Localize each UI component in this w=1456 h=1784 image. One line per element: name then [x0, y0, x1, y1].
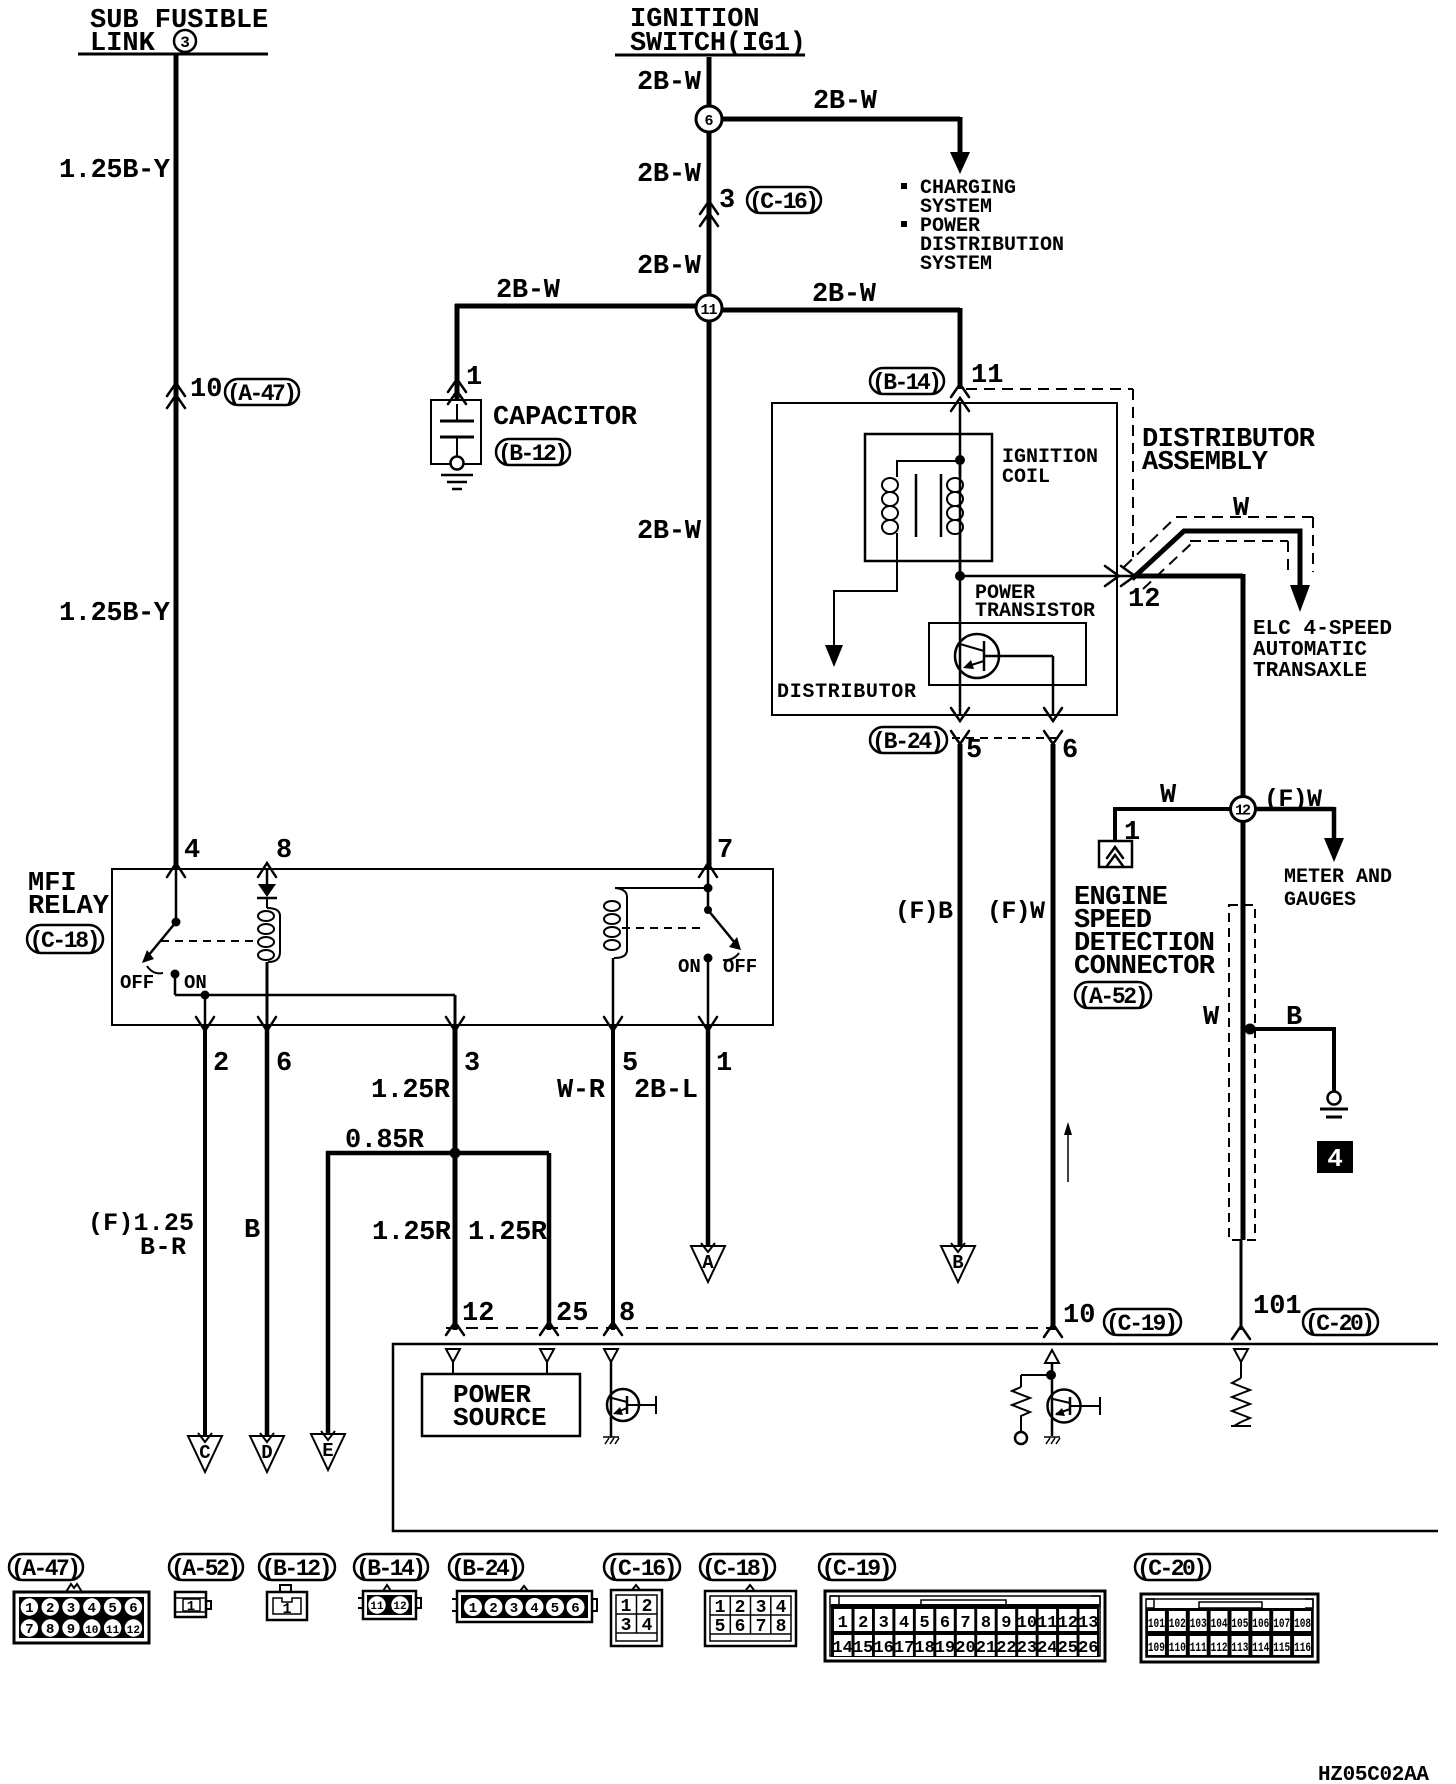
ignition coil box [865, 434, 992, 561]
dashed rectangle around W wire [1229, 905, 1255, 1240]
wire 2B-W from node 11 to distributor B-14 pin 11 [722, 308, 960, 389]
power transistor Q [955, 576, 1053, 715]
svg-text:7: 7 [960, 1614, 970, 1633]
svg-text:(A-52): (A-52) [1078, 984, 1149, 1010]
connector C-16 pinout [611, 1585, 662, 1646]
svg-text:1: 1 [621, 1597, 632, 1617]
thick W wire diagonal and to ELC transaxle [1132, 531, 1300, 585]
transistor at ECU pin 8 [603, 1362, 656, 1444]
svg-text:2: 2 [489, 1601, 497, 1617]
connector ref A-52 stadium row [169, 1554, 243, 1582]
svg-text:12: 12 [462, 1299, 494, 1329]
svg-text:COIL: COIL [1002, 466, 1050, 489]
wire 2B-W to capacitor [455, 304, 696, 400]
connector ref B-14 stadium [870, 368, 944, 396]
chevron at pin 101 [1232, 1326, 1250, 1339]
svg-text:3: 3 [510, 1601, 518, 1617]
chevrons at relay bottom pins [196, 1017, 717, 1031]
svg-text:RELAY: RELAY [28, 892, 110, 922]
svg-text:4: 4 [899, 1614, 909, 1633]
svg-text:2B-W: 2B-W [812, 280, 877, 310]
svg-text:12: 12 [1235, 803, 1251, 820]
ECU dashed connector line [446, 1327, 1054, 1329]
svg-text:15: 15 [853, 1639, 873, 1658]
svg-text:CONNECTOR: CONNECTOR [1074, 952, 1216, 982]
svg-text:2B-W: 2B-W [496, 276, 561, 306]
svg-text:103: 103 [1190, 1616, 1207, 1631]
svg-text:(C-20): (C-20) [1137, 1556, 1207, 1582]
svg-text:6: 6 [704, 113, 713, 130]
svg-text:(C-19): (C-19) [1106, 1311, 1178, 1337]
label DISTRIBUTOR ASSEMBLY [1142, 425, 1316, 478]
svg-text:(A-47): (A-47) [227, 381, 297, 407]
svg-text:B: B [952, 1252, 963, 1274]
svg-text:(C-18): (C-18) [702, 1556, 772, 1582]
svg-text:(C-19): (C-19) [822, 1556, 893, 1582]
svg-text:6: 6 [571, 1601, 579, 1617]
svg-text:10: 10 [1017, 1614, 1037, 1633]
(F)W wire to C-19 pin 10 [1051, 744, 1056, 1330]
svg-text:W: W [1233, 494, 1250, 524]
connector B-14 pinout [358, 1585, 421, 1619]
svg-text:11: 11 [370, 1601, 384, 1613]
svg-text:ELC 4-SPEED: ELC 4-SPEED [1253, 618, 1392, 641]
svg-text:18: 18 [914, 1639, 934, 1658]
svg-text:12: 12 [1058, 1614, 1078, 1633]
junction dot coil top [955, 455, 965, 465]
wire pin6 to arrow D [265, 1025, 270, 1437]
pin triangle 8 [604, 1349, 618, 1362]
svg-text:4: 4 [530, 1601, 538, 1617]
svg-text:1: 1 [469, 1601, 477, 1617]
svg-text:DISTRIBUTOR: DISTRIBUTOR [777, 681, 916, 704]
svg-text:107: 107 [1273, 1616, 1290, 1631]
small up arrow beside (F)W wire [1064, 1122, 1072, 1182]
svg-text:104: 104 [1211, 1616, 1228, 1631]
svg-text:7: 7 [25, 1622, 33, 1638]
connector ref B-12 stadium [496, 439, 570, 467]
svg-text:109: 109 [1148, 1640, 1165, 1655]
dashed link left switch to coil [161, 940, 253, 942]
junction dot pin2 [201, 991, 210, 1000]
svg-text:8: 8 [619, 1299, 635, 1329]
svg-text:4: 4 [88, 1601, 96, 1617]
inline connector chevrons C-16 pin 3 [700, 201, 718, 226]
ground symbol right [1320, 1092, 1348, 1118]
ECU box outline [393, 1344, 1438, 1531]
connector ref C-18 stadium [27, 925, 103, 954]
connector ref B-14 stadium row [354, 1554, 428, 1582]
svg-text:21: 21 [976, 1639, 996, 1658]
label IGNITION SWITCH(IG1) [630, 5, 806, 59]
svg-text:6: 6 [940, 1614, 950, 1633]
svg-text:6: 6 [276, 1049, 292, 1079]
connector ref C-20 stadium row [1135, 1554, 1210, 1582]
main 2B-W wire from ignition switch down to MFI relay pin 7 [707, 57, 712, 869]
svg-text:12: 12 [1128, 585, 1160, 615]
svg-text:1.25B-Y: 1.25B-Y [59, 156, 171, 186]
svg-text:5: 5 [919, 1614, 929, 1633]
W wire from pin 12 junction to node 12 [1134, 574, 1243, 797]
label MFI RELAY [28, 869, 110, 922]
svg-text:14: 14 [832, 1639, 852, 1658]
svg-text:11: 11 [701, 302, 718, 319]
connector ref C-18 stadium row [700, 1554, 775, 1582]
junction dot 1.25R split [450, 1148, 461, 1159]
connector C-18 pinout [705, 1585, 796, 1646]
svg-text:19: 19 [935, 1639, 955, 1658]
svg-text:6: 6 [129, 1601, 137, 1617]
svg-text:CAPACITOR: CAPACITOR [493, 403, 638, 433]
svg-text:6: 6 [1062, 736, 1078, 766]
wire into ignition coil [959, 403, 962, 576]
MFI relay box [112, 869, 773, 1025]
svg-text:9: 9 [67, 1622, 75, 1638]
svg-text:(C-18): (C-18) [30, 928, 101, 954]
svg-text:1: 1 [282, 1601, 291, 1618]
power transistor box [929, 623, 1086, 685]
bus bar under SUB FUSIBLE LINK [78, 53, 268, 56]
label ENGINE SPEED DETECTION CONNECTOR [1074, 883, 1216, 982]
arrow E triangle [311, 1431, 345, 1470]
branch wire 2B-W to charging system [722, 117, 960, 152]
svg-text:(B-14): (B-14) [872, 370, 942, 396]
svg-text:11: 11 [971, 361, 1003, 391]
distributor assembly solid box [772, 403, 1117, 715]
wire pin2 to arrow C [203, 1025, 207, 1437]
svg-text:W: W [1203, 1003, 1220, 1033]
connector ref A-52 stadium [1075, 982, 1151, 1010]
svg-text:OFF: OFF [723, 956, 757, 978]
svg-text:(B-12): (B-12) [262, 1556, 333, 1582]
svg-text:(C-16): (C-16) [607, 1556, 678, 1582]
arrowhead to charging system [950, 152, 970, 174]
connector ref C-19 stadium [1104, 1309, 1181, 1337]
distributor assembly dashed outline top [966, 389, 1133, 557]
svg-text:B-R: B-R [140, 1233, 186, 1262]
annotation METER AND GAUGES [1284, 866, 1392, 912]
junction dot B branch [1245, 1024, 1256, 1035]
W wire left branch to engine speed detection connector [1115, 807, 1231, 841]
svg-text:2B-W: 2B-W [813, 87, 878, 117]
inline connector chevrons on wire (A-47 pin 10) [167, 383, 185, 408]
svg-text:101: 101 [1148, 1616, 1165, 1631]
svg-text:11: 11 [1037, 1614, 1057, 1633]
svg-text:ON: ON [184, 972, 207, 994]
connector ref C-19 stadium row [819, 1554, 895, 1582]
svg-text:12: 12 [127, 1625, 140, 1637]
wire 1.25B-Y from sub fusible link to MFI relay pin 4 [174, 55, 179, 869]
svg-text:17: 17 [894, 1639, 914, 1658]
svg-text:116: 116 [1294, 1640, 1311, 1655]
svg-text:B: B [244, 1216, 260, 1246]
svg-text:10: 10 [190, 375, 222, 405]
svg-text:24: 24 [1037, 1639, 1057, 1658]
svg-text:(F)W: (F)W [987, 897, 1045, 926]
svg-text:112: 112 [1211, 1640, 1228, 1655]
svg-text:26: 26 [1078, 1639, 1098, 1658]
svg-text:4: 4 [184, 836, 200, 866]
ignition coil transformer [882, 460, 963, 576]
relay diode [257, 869, 277, 908]
svg-text:2: 2 [642, 1597, 653, 1617]
svg-text:1: 1 [25, 1601, 33, 1617]
wire label (F)1.25 B-R [88, 1209, 194, 1262]
svg-text:2B-W: 2B-W [637, 517, 702, 547]
chevrons at ECU pins 12 25 8 10 [446, 1322, 1062, 1337]
svg-text:5: 5 [622, 1049, 638, 1079]
wire pin2 inside [204, 995, 207, 1025]
svg-text:(C-20): (C-20) [1305, 1311, 1375, 1337]
svg-text:W-R: W-R [557, 1076, 606, 1106]
svg-text:8: 8 [276, 836, 292, 866]
svg-text:(B-12): (B-12) [498, 441, 568, 467]
svg-text:AUTOMATIC: AUTOMATIC [1253, 639, 1367, 662]
pin triangle 10 (up) [1045, 1350, 1059, 1363]
svg-text:8: 8 [46, 1622, 54, 1638]
svg-text:4: 4 [1327, 1144, 1343, 1174]
svg-text:TRANSAXLE: TRANSAXLE [1253, 660, 1367, 683]
wire pin1 to arrow A [706, 1025, 711, 1246]
svg-text:11: 11 [106, 1625, 120, 1637]
label POWER TRANSISTOR [975, 582, 1095, 623]
B-24 dashed line [952, 737, 1061, 739]
svg-text:5: 5 [966, 736, 982, 766]
svg-text:108: 108 [1294, 1616, 1311, 1631]
svg-text:22: 22 [996, 1639, 1016, 1658]
svg-text:1.25R: 1.25R [372, 1218, 452, 1248]
svg-text:W: W [1160, 781, 1177, 811]
svg-text:(B-14): (B-14) [356, 1556, 426, 1582]
svg-text:GAUGES: GAUGES [1284, 889, 1356, 912]
connector C-20 pinout [1141, 1594, 1318, 1662]
(F)W wire right branch to meter and gauges [1255, 807, 1334, 838]
svg-text:2B-W: 2B-W [637, 68, 702, 98]
svg-text:HZ05C02AA: HZ05C02AA [1318, 1764, 1429, 1784]
svg-text:3: 3 [621, 1616, 632, 1636]
svg-text:(B-24): (B-24) [872, 729, 944, 755]
inline connector chevrons capacitor pin 1 [448, 379, 466, 404]
svg-text:20: 20 [955, 1639, 975, 1658]
relay switch left [142, 869, 181, 979]
connector chevrons at box exit pin 12 [1105, 566, 1135, 586]
svg-text:1: 1 [716, 1049, 732, 1079]
svg-text:111: 111 [1190, 1640, 1207, 1655]
stub wires pins 12 25 [453, 1362, 547, 1374]
svg-text:D: D [261, 1442, 272, 1464]
relay coil right [604, 888, 627, 1025]
dashed outline along W wire (distributor assembly continuation) [1124, 517, 1313, 572]
connector ref A-47 stadium [225, 379, 299, 407]
svg-text:1.25R: 1.25R [468, 1218, 548, 1248]
pin triangle 12 [446, 1349, 460, 1362]
wire to C-20 pin 101 [1240, 1240, 1243, 1330]
capacitor C (B-12) [431, 400, 481, 470]
node circled 11 [696, 295, 722, 321]
svg-text:23: 23 [1017, 1639, 1037, 1658]
svg-text:5: 5 [715, 1617, 726, 1637]
svg-text:3: 3 [464, 1049, 480, 1079]
bus bar under IGNITION SWITCH [615, 54, 805, 57]
wire to right coil [615, 887, 708, 889]
connector ref B-24 stadium [870, 727, 947, 755]
svg-text:7: 7 [756, 1617, 767, 1637]
connector A-47 pinout [14, 1584, 149, 1643]
connector ref C-16 stadium row [604, 1554, 680, 1582]
svg-text:113: 113 [1231, 1640, 1248, 1655]
svg-text:SYSTEM: SYSTEM [920, 253, 992, 276]
relay switch right [704, 888, 742, 1025]
svg-text:TRANSISTOR: TRANSISTOR [975, 600, 1095, 623]
arrowhead to meter and gauges [1324, 838, 1344, 862]
svg-text:2: 2 [735, 1598, 746, 1618]
svg-text:4: 4 [642, 1616, 653, 1636]
connector A-52 pinout [175, 1592, 211, 1617]
wire pin5 to ECU pin 8 [611, 1025, 615, 1330]
chevrons at relay top pins 4 8 7 [167, 863, 717, 877]
wire primary to distributor arrow [834, 561, 897, 645]
main W wire down from node 12 [1241, 821, 1246, 1240]
svg-text:6: 6 [735, 1617, 746, 1637]
wire coil output to pin 12 [960, 575, 1134, 578]
arrow A triangle [691, 1243, 725, 1282]
ground reference black box 4 [1317, 1141, 1353, 1174]
svg-text:110: 110 [1169, 1640, 1186, 1655]
node circled 6 [696, 106, 722, 132]
annotation ELC 4-SPEED AUTOMATIC TRANSAXLE [1253, 618, 1392, 683]
svg-text:114: 114 [1252, 1640, 1269, 1655]
svg-text:102: 102 [1169, 1616, 1186, 1631]
svg-text:101: 101 [1253, 1292, 1302, 1322]
POWER SOURCE box [422, 1374, 580, 1436]
dashed link right switch to coil [622, 927, 700, 929]
ground below capacitor [441, 475, 473, 489]
C-20 pin 101 resistor [1231, 1362, 1251, 1426]
svg-text:3: 3 [67, 1601, 75, 1617]
svg-text:12: 12 [393, 1601, 406, 1613]
svg-text:8: 8 [776, 1617, 787, 1637]
connector C-19 pinout [825, 1591, 1105, 1661]
connector ref B-24 stadium row [449, 1554, 523, 1582]
svg-text:5: 5 [551, 1601, 559, 1617]
svg-text:2: 2 [213, 1049, 229, 1079]
svg-text:(C-16): (C-16) [749, 189, 819, 215]
connector B-24 pinout [452, 1586, 597, 1622]
svg-text:OFF: OFF [120, 972, 154, 994]
circled number 3 [174, 30, 196, 52]
svg-text:5: 5 [108, 1601, 116, 1617]
svg-text:8: 8 [981, 1614, 991, 1633]
svg-text:3: 3 [719, 186, 735, 216]
B wire branch to ground [1250, 1027, 1334, 1091]
engine speed detection connector symbol [1099, 841, 1132, 867]
arrow B triangle [941, 1243, 975, 1282]
pin triangle 25 [540, 1349, 554, 1362]
arrow C triangle [188, 1433, 222, 1472]
svg-text:4: 4 [776, 1598, 787, 1618]
svg-text:METER AND: METER AND [1284, 866, 1392, 889]
svg-text:SOURCE: SOURCE [453, 1403, 547, 1433]
svg-text:1: 1 [187, 1599, 195, 1615]
svg-text:E: E [322, 1440, 333, 1462]
svg-text:2B-L: 2B-L [634, 1076, 698, 1106]
svg-text:A: A [702, 1252, 714, 1274]
svg-text:1: 1 [466, 363, 482, 393]
label IGNITION COIL [1002, 446, 1098, 489]
svg-text:106: 106 [1252, 1616, 1269, 1631]
wire pin3 inside [454, 995, 457, 1025]
svg-text:1.25R: 1.25R [371, 1076, 451, 1106]
svg-text:9: 9 [1001, 1614, 1011, 1633]
0.85R branch wire [326, 1151, 549, 1434]
svg-text:3: 3 [879, 1614, 889, 1633]
connector ref A-47 stadium row [9, 1554, 83, 1582]
svg-text:3: 3 [180, 34, 190, 52]
svg-text:2: 2 [46, 1601, 54, 1617]
relay coil left [258, 908, 280, 1025]
arrowhead to ELC transaxle [1290, 585, 1310, 612]
svg-text:1.25B-Y: 1.25B-Y [59, 599, 171, 629]
connector ref C-20 stadium [1303, 1309, 1378, 1337]
svg-text:25: 25 [556, 1299, 588, 1329]
wire pin3 to ECU pin 12 [453, 1025, 458, 1330]
svg-text:2B-W: 2B-W [637, 252, 702, 282]
connector chevrons at B-14 entry [951, 384, 969, 411]
svg-text:16: 16 [873, 1639, 893, 1658]
annotation charging system / power distribution system [901, 177, 1064, 276]
svg-text:(A-52): (A-52) [171, 1556, 241, 1582]
svg-text:25: 25 [1058, 1639, 1078, 1658]
label SUB FUSIBLE LINK [90, 6, 268, 59]
relay right side wire pin 7 [707, 869, 710, 888]
junction dot pin7 [704, 884, 713, 893]
wire from ON contact to pin3 [175, 974, 455, 995]
svg-text:2: 2 [858, 1614, 868, 1633]
arrowhead to distributor [825, 645, 843, 667]
svg-text:105: 105 [1231, 1616, 1248, 1631]
connector B-12 pinout [267, 1585, 307, 1620]
svg-text:(B-24): (B-24) [451, 1556, 521, 1582]
svg-text:10: 10 [85, 1625, 98, 1637]
svg-text:1: 1 [838, 1614, 848, 1633]
svg-text:ON: ON [678, 956, 701, 978]
connector ref B-12 stadium row [259, 1554, 335, 1582]
svg-text:ASSEMBLY: ASSEMBLY [1142, 448, 1269, 478]
svg-text:(F)B: (F)B [895, 897, 953, 926]
svg-text:115: 115 [1273, 1640, 1290, 1655]
svg-text:7: 7 [717, 836, 733, 866]
junction dot coil output [955, 571, 965, 581]
svg-text:10: 10 [1063, 1301, 1095, 1331]
svg-text:2B-W: 2B-W [637, 160, 702, 190]
node circled 12 [1231, 797, 1256, 822]
svg-text:B: B [1286, 1003, 1302, 1033]
connector chevrons at B-24 exit [951, 708, 1062, 721]
svg-text:1: 1 [715, 1598, 726, 1618]
(F)B wire to arrow B [958, 744, 963, 1246]
svg-text:C: C [199, 1442, 210, 1464]
svg-text:13: 13 [1078, 1614, 1098, 1633]
connector ref C-16 stadium [747, 187, 821, 215]
arrow D triangle [250, 1433, 284, 1472]
C-19 pin 10 internal circuit [1012, 1363, 1100, 1444]
pin triangle 101 [1234, 1349, 1248, 1362]
svg-text:3: 3 [756, 1598, 767, 1618]
svg-text:(A-47): (A-47) [11, 1556, 81, 1582]
